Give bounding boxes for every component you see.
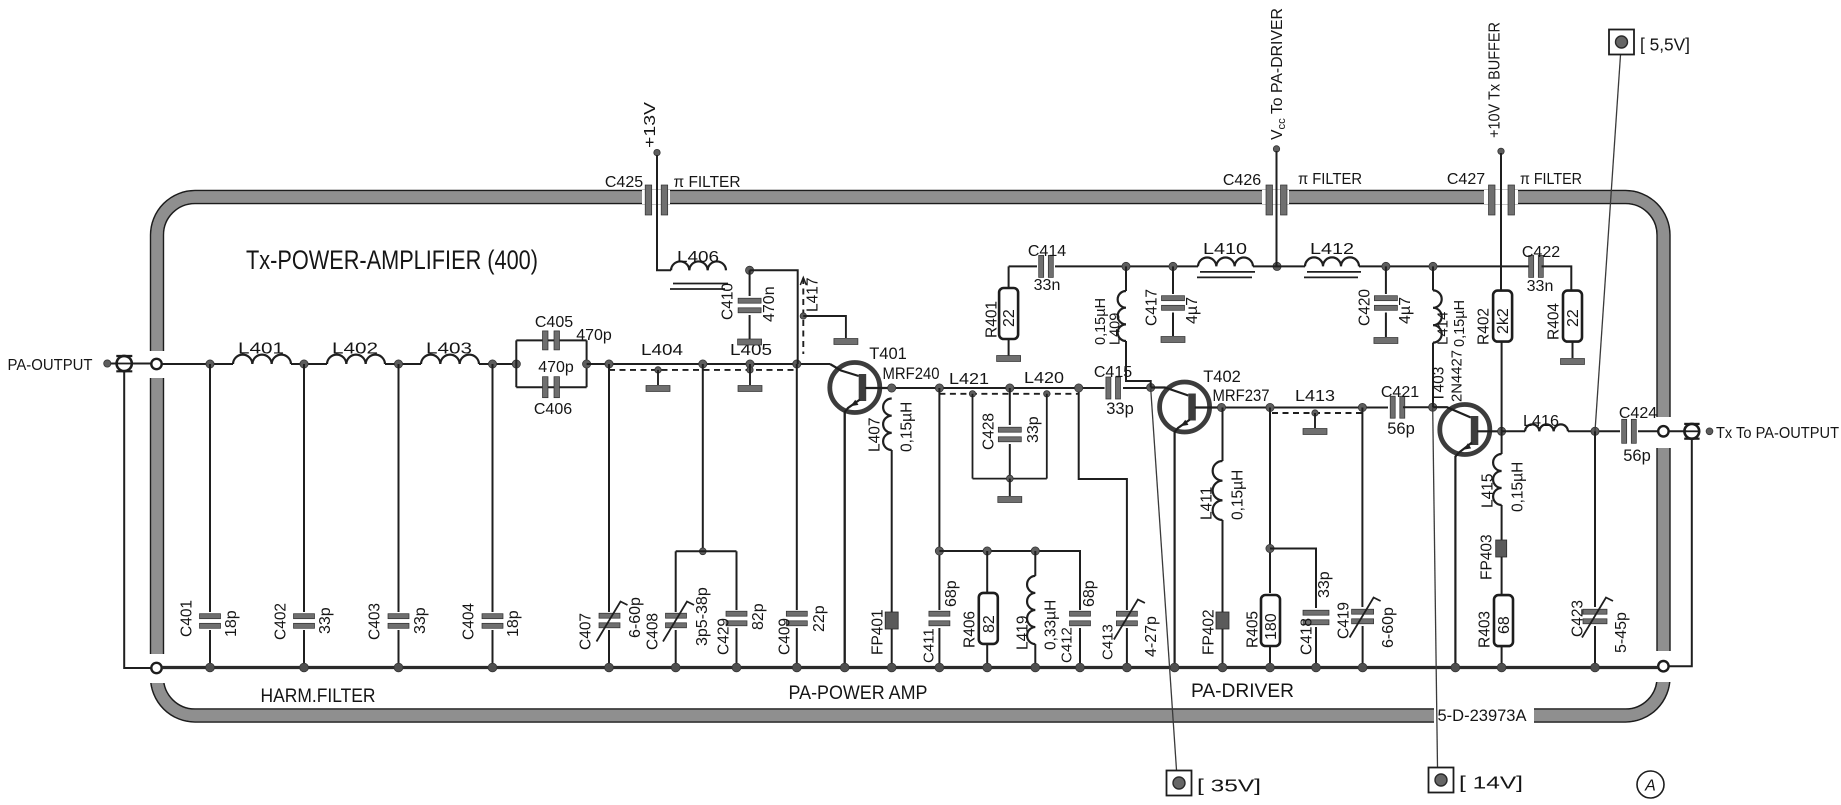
trimmer arrow C419 <box>1350 598 1381 638</box>
svg-text:C401: C401 <box>179 600 196 637</box>
wire C415 left <box>1103 387 1106 389</box>
ground C417 <box>1161 337 1185 343</box>
wire C429 to bus <box>736 628 738 668</box>
wire L411 top leg <box>1222 408 1224 462</box>
node C402 top <box>300 360 308 368</box>
ground C420 <box>1374 338 1398 344</box>
inductor L411 <box>1213 461 1223 520</box>
svg-text:T401: T401 <box>869 345 907 363</box>
node bus C404 <box>488 663 497 672</box>
svg-text:5-45p: 5-45p <box>1613 612 1630 653</box>
svg-text:MRF240: MRF240 <box>883 365 940 383</box>
wire C403 drop <box>398 364 400 612</box>
node L409 rail <box>1122 262 1130 270</box>
node bus C402 <box>300 663 309 672</box>
node bus R403 <box>1497 663 1506 672</box>
node 5,5V junction <box>1591 427 1599 435</box>
wire C402 to bus <box>303 630 305 668</box>
inductor bead L405 <box>738 386 762 392</box>
node bus C418 <box>1312 663 1321 672</box>
node bus C407 <box>605 663 614 672</box>
node bus T401 emitter <box>840 663 849 672</box>
trimmer arrow C407 <box>597 602 628 642</box>
wire C401 to bus <box>209 630 211 668</box>
svg-text:C427: C427 <box>1447 171 1485 188</box>
node C428 bottom <box>1006 475 1013 482</box>
wire C417 leg <box>1172 266 1174 294</box>
svg-text:T402: T402 <box>1203 368 1241 386</box>
svg-text:PA-POWER AMP: PA-POWER AMP <box>789 683 928 704</box>
capacitor C424 <box>1622 419 1637 443</box>
svg-text:C412: C412 <box>1058 627 1075 663</box>
inductor L410 <box>1198 258 1253 267</box>
svg-text:PA-DRIVER: PA-DRIVER <box>1191 680 1294 702</box>
svg-text:33n: 33n <box>1527 278 1554 295</box>
svg-text:C425: C425 <box>605 174 643 191</box>
inductor L401 <box>233 355 291 364</box>
node border exit (output) <box>1658 426 1668 436</box>
ground R404 <box>1561 359 1585 365</box>
wire FP401 to bus <box>891 629 893 668</box>
node L411 top <box>1217 403 1225 411</box>
capacitor C412 <box>1070 611 1091 626</box>
svg-text:2k2: 2k2 <box>1495 308 1512 334</box>
svg-text:33p: 33p <box>317 607 334 634</box>
border gaps <box>149 190 1671 724</box>
capacitor C405 <box>543 331 560 350</box>
wire L415 to FP403 <box>1501 505 1503 540</box>
svg-text:Tx-POWER-AMPLIFIER (400): Tx-POWER-AMPLIFIER (400) <box>246 245 538 275</box>
wire FP402 to bus <box>1222 629 1224 668</box>
svg-text:R404: R404 <box>1546 303 1563 340</box>
node +13V stub <box>654 149 660 155</box>
inductor L407 <box>883 399 892 451</box>
wire C428 top leg <box>1009 388 1011 425</box>
node L413 diamond <box>1312 410 1318 416</box>
wire main line harm filter d <box>479 363 516 365</box>
wire L416 to C424 <box>1568 430 1620 432</box>
wire R405 to bus <box>1269 646 1271 668</box>
wire C402 drop <box>303 364 305 612</box>
node L405 main <box>746 360 754 368</box>
svg-text:470p: 470p <box>576 327 612 344</box>
svg-text:HARM.FILTER: HARM.FILTER <box>261 686 376 707</box>
test point 14V <box>1429 768 1454 793</box>
capacitor C404 <box>482 614 503 629</box>
core L410 <box>1197 272 1255 278</box>
node bus C412 <box>1076 663 1085 672</box>
svg-text:C422: C422 <box>1522 244 1560 261</box>
wire C407 to bus <box>608 630 610 668</box>
inductor L419 <box>1027 576 1035 644</box>
node C420 rail <box>1382 262 1390 270</box>
inductor L416 <box>1525 424 1568 431</box>
wire R406 to bus <box>986 644 988 668</box>
node C407 top <box>605 360 613 368</box>
node R405 top <box>1266 403 1274 411</box>
svg-text:470p: 470p <box>538 359 574 376</box>
svg-text:[ 35V]: [ 35V] <box>1197 776 1261 796</box>
node L420 diamond <box>1044 391 1050 397</box>
node box right <box>583 360 591 368</box>
capacitor C407 trimmer <box>599 613 620 628</box>
svg-text:68: 68 <box>1496 616 1513 634</box>
wire connector ground drop <box>124 371 151 668</box>
svg-text:L417: L417 <box>805 278 822 312</box>
svg-text:470n: 470n <box>761 286 778 322</box>
svg-text:5-D-23973A: 5-D-23973A <box>1438 707 1527 725</box>
svg-text:22p: 22p <box>811 605 828 632</box>
resistor R402 <box>1493 291 1512 342</box>
svg-text:R406: R406 <box>962 611 979 648</box>
svg-text:0,15µH: 0,15µH <box>1510 462 1527 512</box>
svg-text:C421: C421 <box>1381 384 1419 401</box>
node L421 start <box>935 384 943 392</box>
wire +10V feed <box>1500 153 1502 291</box>
node bus FP402 <box>1218 663 1227 672</box>
svg-text:C411: C411 <box>920 628 937 663</box>
svg-text:T403: T403 <box>1431 367 1448 402</box>
svg-text:C405: C405 <box>535 314 573 331</box>
node border entry (input) <box>151 359 161 369</box>
connector PA-OUTPUT <box>116 356 132 371</box>
wire C428 left leg <box>972 394 974 479</box>
wire L414 bottom leg <box>1432 343 1434 408</box>
wire L409 top leg <box>1125 266 1127 291</box>
wire rail C414-L410 <box>1055 265 1198 267</box>
node L417 diamond <box>800 313 806 319</box>
svg-text:L406: L406 <box>677 249 719 266</box>
capacitor C423 trimmer <box>1583 609 1607 624</box>
node bus C401 <box>206 663 215 672</box>
svg-text:C424: C424 <box>1619 405 1657 422</box>
wire L406 to corner <box>750 270 798 364</box>
wire C404 to bus <box>492 630 494 668</box>
node C419 top <box>1358 403 1366 411</box>
svg-text:33p: 33p <box>1106 400 1134 418</box>
svg-text:C406: C406 <box>534 401 572 418</box>
node bus L419 <box>1031 663 1040 672</box>
wire C429 drop <box>736 551 738 610</box>
svg-text:82: 82 <box>981 615 998 633</box>
trimmer arrow C413 <box>1114 600 1145 640</box>
svg-text:6-60p: 6-60p <box>627 597 644 638</box>
svg-text:π FILTER: π FILTER <box>1298 171 1362 188</box>
svg-text:L404: L404 <box>641 342 683 359</box>
trimmer arrow C423 <box>1582 598 1613 638</box>
node bus C419 <box>1358 663 1367 672</box>
node C409 top <box>793 360 801 368</box>
wire T401 emitter to bus <box>844 412 846 668</box>
svg-text:56p: 56p <box>1623 447 1651 465</box>
svg-text:0,33µH: 0,33µH <box>1043 600 1060 650</box>
wire R405 drop <box>1269 408 1271 594</box>
shield border band <box>151 191 1670 722</box>
svg-text:33p: 33p <box>1316 571 1333 598</box>
node L406 out <box>746 266 754 274</box>
resistor R401 <box>999 288 1018 339</box>
wire L413 stub <box>1314 413 1316 428</box>
wire C409 to bus <box>796 628 798 668</box>
wire FP403 to R403 <box>1501 557 1503 596</box>
svg-text:L416: L416 <box>1523 413 1559 430</box>
wire C418 tee <box>1270 549 1316 609</box>
inductor bead L413 <box>1303 429 1327 435</box>
revision mark A <box>1637 771 1664 798</box>
node L404 diamond <box>655 367 661 373</box>
capacitor C410 <box>738 298 761 313</box>
wire Vcc feed <box>1276 151 1278 266</box>
inductor L402 <box>327 355 385 364</box>
svg-text:[ 14V]: [ 14V] <box>1459 773 1523 793</box>
wire C403 to bus <box>398 630 400 668</box>
node L419 top <box>1031 547 1039 555</box>
svg-text:4µ7: 4µ7 <box>1397 297 1414 324</box>
wire R402 drop <box>1501 341 1503 431</box>
capacitor C420 <box>1374 296 1397 311</box>
svg-text:L412: L412 <box>1310 241 1354 258</box>
wire C419 drop <box>1361 408 1363 608</box>
wire C418 to bus <box>1315 627 1317 668</box>
capacitor C415 <box>1106 377 1121 399</box>
inductor L403 <box>421 355 479 364</box>
inductor L415 <box>1493 454 1501 505</box>
test point 5,5V <box>1609 30 1634 55</box>
svg-text:22: 22 <box>1001 309 1018 327</box>
svg-text:82p: 82p <box>750 603 767 630</box>
arrow L417 <box>800 278 806 286</box>
svg-text:L407: L407 <box>867 418 884 452</box>
wire C420 leg <box>1385 266 1387 294</box>
wire C408/C429 tee <box>676 550 737 552</box>
transistor T401 MRF240 <box>830 363 892 668</box>
node L421 diamond <box>969 391 975 397</box>
capacitor C419 trimmer <box>1352 609 1374 624</box>
wire L407 to FP401 <box>891 450 893 612</box>
wire box top <box>516 339 586 341</box>
resistor R405 <box>1261 595 1280 646</box>
wire C428 gnd stub <box>1009 479 1011 496</box>
inductor L409 <box>1118 291 1126 341</box>
node T403 collector <box>1498 427 1506 435</box>
svg-text:22: 22 <box>1565 309 1582 327</box>
svg-text:68p: 68p <box>1081 580 1098 607</box>
capacitor C421 <box>1390 396 1405 418</box>
wire main line harm filter b <box>291 363 327 365</box>
svg-text:C403: C403 <box>367 603 384 640</box>
wire L419 top leg <box>1034 551 1036 576</box>
svg-text:L415: L415 <box>1480 474 1497 508</box>
wire C411 drop <box>938 388 940 610</box>
dashed line L413 <box>1272 412 1362 414</box>
wire collector line T402 <box>1222 407 1389 409</box>
svg-text:C404: C404 <box>461 603 478 640</box>
wire L415 top leg <box>1501 431 1503 454</box>
capacitor C413 trimmer <box>1116 611 1137 626</box>
svg-text:C420: C420 <box>1357 289 1374 326</box>
wire C423 drop <box>1594 431 1596 607</box>
capacitor C406 <box>543 377 560 398</box>
capacitor C411 <box>929 611 950 626</box>
wire C407 drop <box>608 364 610 612</box>
fuse FP403 <box>1496 540 1507 557</box>
capacitor C425 (border feedthrough) <box>645 185 668 215</box>
node Vcc junction <box>1273 262 1281 270</box>
svg-text:2N4427: 2N4427 <box>1448 350 1465 402</box>
wire C412 to bus <box>1079 628 1081 668</box>
core L406 <box>670 284 728 290</box>
svg-text:L420: L420 <box>1024 370 1064 387</box>
wire connector to border <box>132 363 152 365</box>
fuse FP401 <box>885 612 898 629</box>
svg-text:FP403: FP403 <box>1479 534 1496 580</box>
resistor R404 <box>1563 291 1582 342</box>
wire R401 leg <box>1008 266 1010 290</box>
capacitor C408 trimmer <box>666 613 687 628</box>
wire C410 to gnd <box>749 315 751 339</box>
wire rail L412-C422 <box>1359 265 1531 267</box>
svg-text:4-27p: 4-27p <box>1143 616 1160 657</box>
svg-text:[ 5,5V]: [ 5,5V] <box>1640 35 1690 55</box>
wire net550 <box>939 551 1080 610</box>
ground C410 <box>738 339 762 345</box>
capacitor C414 <box>1039 255 1054 277</box>
wire box left <box>515 340 517 387</box>
wire L417 link <box>803 316 846 338</box>
wire C419 to bus <box>1362 626 1364 668</box>
wire R404 gnd stub <box>1572 342 1574 358</box>
node border exit (ground right) <box>1658 661 1668 671</box>
capacitor C417 <box>1162 296 1185 311</box>
node C401 top <box>206 360 214 368</box>
node C408 branch mid <box>699 548 706 555</box>
wire L405 stub <box>749 364 751 385</box>
fuse FP402 <box>1216 612 1229 629</box>
capacitor C409 <box>786 611 807 626</box>
inductor bead L404 <box>646 386 670 392</box>
node output stub <box>1706 428 1713 435</box>
svg-text:R402: R402 <box>1476 308 1493 345</box>
capacitor C427 (border feedthrough) <box>1489 185 1515 215</box>
svg-text:PA-OUTPUT: PA-OUTPUT <box>8 357 94 374</box>
wire rail R401-C414 <box>1009 265 1037 267</box>
capacitor C428 <box>998 427 1021 442</box>
wire C401 drop <box>209 364 211 612</box>
svg-text:L409: L409 <box>1108 313 1124 345</box>
svg-text:C428: C428 <box>981 413 998 450</box>
wire C421 to base node <box>1403 406 1433 408</box>
node bus C429 <box>732 663 741 672</box>
node T403 base <box>1429 403 1437 411</box>
svg-text:180: 180 <box>1263 613 1280 640</box>
wire box right <box>586 340 588 387</box>
svg-text:L419: L419 <box>1015 616 1032 650</box>
wire +13V feed <box>657 155 671 270</box>
wire collector line T401 <box>892 387 1104 389</box>
wire C411 to bus <box>938 628 940 668</box>
wire C423 to bus <box>1594 626 1596 668</box>
node PA-OUTPUT stub <box>104 360 111 367</box>
node L414 rail <box>1429 262 1437 270</box>
svg-text:MRF237: MRF237 <box>1213 387 1270 405</box>
svg-text:Tx To PA-OUTPUT: Tx To PA-OUTPUT <box>1716 425 1839 442</box>
capacitor C429 <box>726 611 747 626</box>
node C428 top <box>1006 384 1014 392</box>
svg-text:+13V: +13V <box>642 102 659 148</box>
wire L419 to bus <box>1034 644 1036 667</box>
node bus C413 <box>1123 663 1132 672</box>
svg-text:C426: C426 <box>1223 172 1261 189</box>
wire R403 to bus <box>1501 646 1503 668</box>
connector Tx To PA-OUTPUT <box>1684 424 1699 439</box>
svg-text:C402: C402 <box>273 603 290 640</box>
svg-text:C418: C418 <box>1299 618 1316 655</box>
node +10V stub <box>1498 148 1504 154</box>
svg-text:C419: C419 <box>1336 602 1353 639</box>
transistor T403 2N4427 <box>1433 405 1502 668</box>
svg-text:18p: 18p <box>505 610 522 637</box>
wire output line <box>1502 430 1525 432</box>
svg-text:68p: 68p <box>943 580 960 607</box>
dashed line L404 area <box>609 369 797 371</box>
node L407 top <box>888 384 896 392</box>
node C418 tee <box>1266 544 1274 552</box>
svg-text:C423: C423 <box>1570 600 1587 637</box>
inductor L414 <box>1433 290 1442 342</box>
svg-text:C417: C417 <box>1144 289 1161 326</box>
wire C428 right leg <box>1046 394 1048 479</box>
node Vcc stub <box>1273 146 1279 152</box>
node box left <box>512 360 520 368</box>
wire C408 drop <box>675 551 677 612</box>
wire C413 to bus <box>1126 628 1128 668</box>
wire C408 to bus <box>675 630 677 668</box>
svg-text:33p: 33p <box>412 607 429 634</box>
svg-text:π FILTER: π FILTER <box>1520 171 1582 188</box>
svg-text:L413: L413 <box>1295 388 1335 405</box>
svg-text:π FILTER: π FILTER <box>674 174 741 191</box>
test point 35V <box>1167 771 1192 796</box>
node C408 branch top <box>699 360 707 368</box>
capacitor C418 <box>1303 610 1329 625</box>
wire C408 branch drop <box>702 364 704 551</box>
svg-text:C414: C414 <box>1028 243 1066 260</box>
node C417 rail <box>1169 262 1177 270</box>
ground R401 <box>997 356 1021 362</box>
wire C404 drop <box>492 364 494 612</box>
node bus C403 <box>394 663 403 672</box>
node bus C408 <box>671 663 680 672</box>
node L420 end <box>1075 384 1083 392</box>
capacitor C426 (border feedthrough) <box>1266 185 1287 215</box>
wire C420 gnd stub <box>1385 313 1387 338</box>
node C404 top <box>488 360 496 368</box>
wire C428 bottom tee <box>973 478 1047 480</box>
svg-text:L410: L410 <box>1203 241 1247 258</box>
svg-text:R405: R405 <box>1245 611 1262 648</box>
inductor L406 <box>671 261 726 270</box>
svg-text:0,15µH: 0,15µH <box>1452 300 1468 347</box>
wire main line to T401 <box>587 363 830 365</box>
core L412 <box>1304 272 1361 278</box>
ground C428 <box>998 497 1022 503</box>
wire R406 top leg <box>986 551 988 593</box>
wire border to connector <box>1669 430 1687 432</box>
svg-text:C429: C429 <box>716 618 733 655</box>
wire C413 feed <box>1079 388 1127 610</box>
wire L414 top leg <box>1432 266 1434 290</box>
svg-text:L414: L414 <box>1434 312 1451 345</box>
